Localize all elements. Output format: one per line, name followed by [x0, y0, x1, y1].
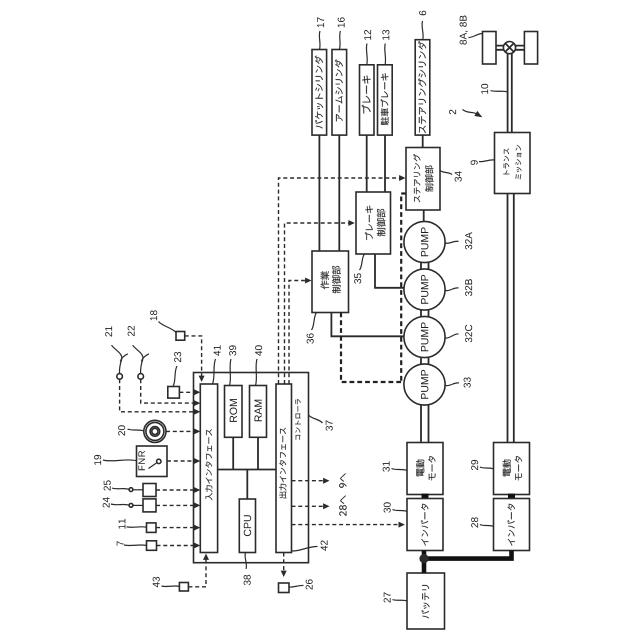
- dashed output to brake control: [285, 220, 355, 384]
- wire steering control to pump 32A: [423, 210, 425, 222]
- steering wheel 20: [144, 420, 166, 442]
- wire RAM to bus: [257, 437, 259, 469]
- wire parking brake to brake control: [384, 135, 386, 192]
- transmission 9: [495, 133, 531, 194]
- differential: [503, 42, 515, 54]
- label 7: [117, 541, 147, 546]
- bucket cylinder 17: [312, 50, 327, 136]
- dashed lever 21 to input interface: [120, 379, 201, 415]
- label 9: [471, 160, 495, 165]
- label 41: [213, 345, 221, 384]
- controller 37: [194, 373, 309, 563]
- label 22: [128, 326, 135, 336]
- link motor 31 to inverter 30: [422, 494, 429, 500]
- steering cylinder 6: [415, 40, 430, 135]
- label 27: [384, 592, 407, 602]
- inverter 28: [494, 499, 530, 551]
- label 30: [384, 502, 407, 512]
- label 11: [119, 519, 147, 529]
- wheel 8B: [524, 32, 537, 65]
- dashed box 11 to input interface: [156, 525, 200, 531]
- label 28: [471, 517, 493, 527]
- power line inverter 30 to battery: [422, 551, 427, 574]
- parking brake 13: [378, 65, 393, 135]
- label 17: [317, 17, 324, 49]
- label 29: [471, 460, 493, 470]
- label 37: [309, 415, 333, 431]
- dashed control steering control branch: [401, 194, 406, 383]
- label 8A, 8B: [460, 16, 483, 45]
- lever 22: [133, 345, 149, 379]
- pump 32A: [404, 221, 445, 262]
- label 2 arrow: [449, 110, 482, 118]
- work control unit 36: [312, 251, 349, 313]
- label 26: [289, 579, 313, 589]
- CPU 38: [239, 499, 255, 553]
- label 32C: [446, 325, 473, 343]
- box 7: [147, 541, 157, 551]
- arm cylinder 16: [332, 50, 347, 136]
- label 21: [105, 326, 112, 336]
- label 28he: [339, 496, 346, 516]
- link motor 29 to inverter 28: [508, 494, 515, 500]
- label 20: [118, 425, 144, 435]
- FNR selector 19: [137, 446, 168, 477]
- dashed output to inverter 30: [292, 522, 405, 528]
- lever 21: [112, 345, 128, 379]
- label 23: [173, 352, 181, 387]
- dashed output to 28: [292, 503, 330, 509]
- electric motor 31: [407, 443, 443, 495]
- pump shaft below 32A: [421, 262, 429, 270]
- wire brake to brake control: [366, 135, 368, 192]
- axle: [496, 46, 524, 50]
- pump 32C: [404, 316, 445, 357]
- wheel 8A: [483, 32, 497, 65]
- brake 12: [360, 65, 375, 135]
- box 43: [179, 583, 188, 592]
- label 43: [153, 577, 180, 587]
- dashed box 25 to input interface: [156, 487, 200, 493]
- label 32A: [446, 232, 473, 249]
- input interface 41: [200, 384, 217, 553]
- label 40: [255, 345, 262, 385]
- label 35: [354, 254, 364, 284]
- pump shaft below 32B: [421, 309, 429, 317]
- box 24: [129, 499, 156, 512]
- wire steering cylinder to steering control: [422, 135, 424, 147]
- box 25: [129, 484, 156, 497]
- wire work control to pump 32C: [331, 313, 404, 337]
- data bus: [218, 469, 276, 471]
- output interface 42: [276, 384, 292, 553]
- label 42: [292, 540, 328, 551]
- label 31: [383, 461, 407, 471]
- dashed output to 9: [292, 478, 330, 484]
- label 19: [94, 455, 136, 465]
- box 11: [147, 523, 157, 533]
- wire arm cylinder to work control: [338, 135, 340, 251]
- inverter 30: [407, 499, 443, 551]
- label 10: [481, 84, 508, 94]
- controller title: [295, 399, 301, 439]
- wire bucket cylinder to work control: [318, 135, 320, 251]
- label 12: [364, 30, 371, 65]
- dashed box 43 to input interface bottom: [188, 554, 209, 587]
- label 16: [338, 17, 345, 49]
- electric motor 29: [494, 443, 530, 495]
- RAM 40: [250, 386, 267, 438]
- dashed lever 22 to input interface: [141, 379, 201, 406]
- brake control unit 35: [356, 192, 391, 254]
- power junction: [419, 554, 428, 563]
- steering control unit 34: [406, 148, 440, 211]
- label 38: [244, 553, 251, 586]
- label 18: [150, 310, 176, 332]
- label 33: [446, 377, 471, 387]
- label 13: [382, 30, 389, 65]
- label 25: [104, 480, 129, 490]
- wire brake control to pump 32B: [375, 254, 404, 288]
- box 18: [176, 332, 185, 341]
- pump shaft 33 to motor 31: [421, 405, 429, 443]
- drive shaft transmission to motor 29: [508, 194, 514, 443]
- label 36: [307, 313, 317, 344]
- battery 27: [407, 573, 445, 629]
- label 24: [103, 497, 129, 507]
- dashed box 7 to input interface: [157, 543, 201, 549]
- label 34: [440, 171, 462, 182]
- wire CPU to bus: [246, 470, 248, 500]
- ROM 39: [225, 386, 243, 438]
- dashed box 24 to input interface: [156, 502, 200, 508]
- dashed box 18 to input interface: [185, 336, 205, 382]
- box 26: [279, 583, 290, 593]
- label 39: [229, 345, 236, 385]
- dashed output to box 26: [281, 553, 287, 578]
- dashed FNR to input interface: [167, 458, 200, 464]
- pump 33: [404, 364, 445, 405]
- dashed box 23 to input interface: [179, 389, 200, 395]
- power line to inverter 28: [424, 551, 512, 559]
- label 9he: [339, 473, 346, 487]
- box 23: [168, 387, 180, 399]
- dashed output to steering control: [279, 175, 406, 384]
- dashed control work control to pump 33: [341, 313, 404, 383]
- label 6: [419, 11, 426, 40]
- wire ROM to bus: [232, 437, 234, 469]
- dashed output to work control: [289, 278, 312, 385]
- dashed steering wheel to input interface: [166, 428, 200, 434]
- drive shaft 10: [508, 54, 512, 133]
- pump shaft 32C to 33: [421, 357, 429, 365]
- pump 32B: [404, 269, 445, 310]
- label 32B: [446, 279, 473, 296]
